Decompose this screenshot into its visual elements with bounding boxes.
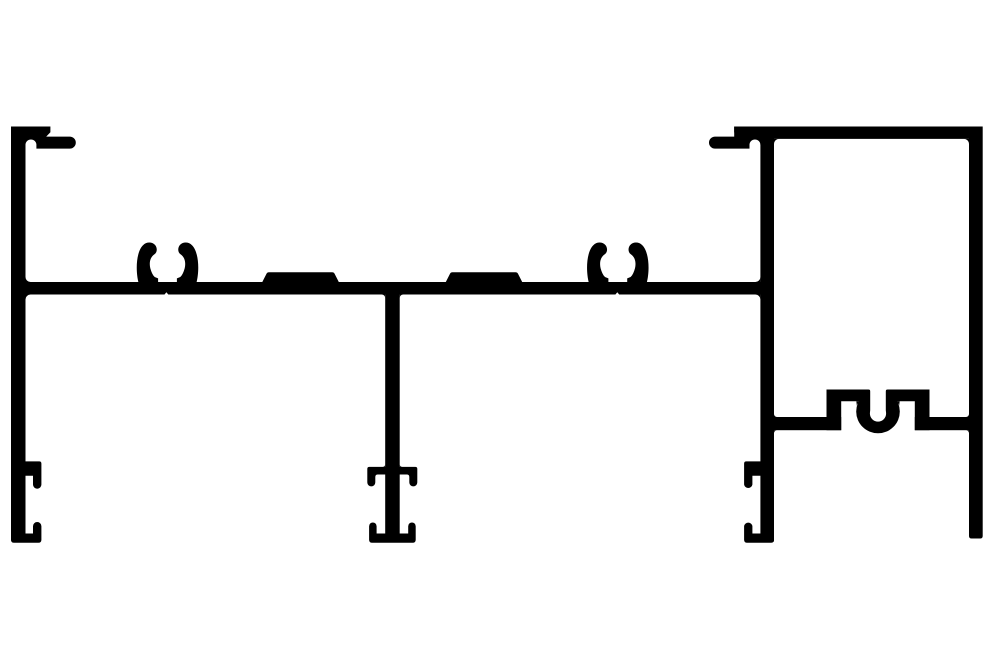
omega screw-boss left bridge — [827, 390, 871, 402]
fillet shelf-right-top — [966, 414, 969, 417]
right wall bottom tab (hook, mirrored) — [744, 461, 762, 488]
raised pad 2 on rail — [445, 272, 522, 283]
white omega opening — [870, 384, 886, 414]
gasket hook pair 2 left hook — [587, 243, 608, 283]
gasket hook pair 2 right hook — [627, 243, 648, 283]
left bar bottom tab (hook) — [24, 461, 41, 488]
left top cap with step, glazing arm and dome notch — [24, 127, 76, 149]
fillet bowl-right-bridge — [895, 401, 900, 406]
fillet shelf-left-bottom — [774, 430, 777, 433]
right box: right outer wall — [969, 127, 983, 539]
white V-notch under hook pair 1 — [164, 292, 169, 295]
fillet bowl-left-bridge — [856, 401, 861, 406]
right box: top cap — [734, 127, 982, 139]
left outer wall (vertical bar) — [11, 127, 26, 541]
omega screw-boss left leg — [827, 390, 842, 431]
fillet cap-inner-right — [964, 139, 969, 144]
white V-notch under hook pair 2 — [615, 292, 620, 295]
omega screw-boss right bridge — [886, 390, 930, 402]
fillet cap-inner-left — [774, 139, 779, 144]
right box: left wall — [760, 127, 774, 542]
gasket hook pair 1 left hook — [137, 243, 158, 283]
white omega inner cavity — [870, 405, 886, 421]
fillet rail-left-top — [26, 277, 31, 282]
fillet shelf-left-top — [774, 414, 777, 417]
fillet rail-right-top — [755, 277, 760, 282]
right box: top-left arm with step and dome notch — [709, 127, 762, 149]
left foot: up-finger and plate — [11, 522, 41, 543]
fillet stem-left — [382, 295, 386, 299]
fillet stem-right — [400, 295, 404, 299]
fillet stem-crossbar-left — [383, 464, 386, 467]
fillet stem-crossbar-right — [400, 464, 403, 467]
omega bowl — [856, 390, 900, 434]
raised pad 1 on rail — [262, 272, 340, 283]
omega screw-boss right leg — [915, 390, 930, 431]
center crossbar with down prongs — [367, 467, 417, 487]
shelf right segment — [915, 417, 970, 430]
shelf left segment — [773, 417, 841, 430]
center stem (vertical web) — [385, 294, 400, 542]
right wall foot: up-finger and plate — [744, 523, 774, 543]
bottom rail (horizontal web) — [24, 282, 762, 295]
fillet shelf-right-bottom — [966, 430, 969, 433]
gasket hook pair 1 right hook — [177, 243, 198, 283]
fillet rail-left-bottom — [26, 295, 31, 300]
center foot: walls and plate — [369, 522, 416, 542]
fillet rail-right-bottom — [755, 295, 760, 300]
